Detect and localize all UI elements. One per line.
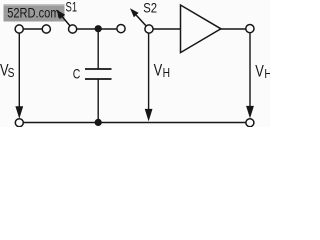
switch S2 blade with arrow <box>130 8 146 26</box>
wire: amplifier output to output terminal <box>221 28 246 30</box>
wire: capacitor bottom lead <box>97 79 99 123</box>
svg-text:S: S <box>8 66 15 80</box>
svg-text:S1: S1 <box>66 0 78 15</box>
capacitor C top plate <box>85 68 112 70</box>
node: output terminal top right <box>246 25 254 33</box>
wire: VH voltage arrow line (middle) <box>148 33 150 110</box>
wire: S2 pole to amplifier input <box>153 28 180 30</box>
svg-text:S2: S2 <box>143 0 157 16</box>
wire: top rail, terminal to S1 left contact <box>23 28 42 30</box>
svg-text:52RD.com: 52RD.com <box>7 6 59 21</box>
node: bottom left terminal <box>15 119 23 127</box>
arrowhead VS down <box>15 106 23 119</box>
svg-text:V: V <box>255 63 264 81</box>
wire: bottom rail <box>24 122 246 124</box>
wire: capacitor top lead <box>97 29 99 69</box>
switch S1 blade with arrow <box>56 10 70 26</box>
svg-text:H: H <box>264 67 270 81</box>
watermark 52RD.com <box>4 4 65 22</box>
svg-text:C: C <box>73 66 81 82</box>
svg-text:V: V <box>154 62 163 80</box>
svg-text:H: H <box>163 66 170 80</box>
node: input terminal top left <box>15 25 23 33</box>
node: S2 pole contact <box>145 25 153 33</box>
node: S1 pole contact <box>69 25 77 33</box>
node: S2 left contact <box>117 25 125 33</box>
wire: VS voltage arrow line (left) <box>18 33 20 108</box>
wire: S1 right contact to S2 left contact (through junction) <box>77 28 117 30</box>
junction: capacitor to top rail <box>95 25 102 32</box>
op-amp U1 buffer triangle <box>181 5 221 53</box>
node: bottom right terminal <box>246 119 254 127</box>
arrowhead VH right down <box>246 106 254 119</box>
node: S1 left contact <box>42 25 50 33</box>
capacitor C bottom plate <box>85 78 112 80</box>
arrowhead VH middle down <box>145 109 153 122</box>
junction: capacitor to bottom rail <box>95 119 102 126</box>
wire: VH voltage arrow line (right) <box>249 33 251 108</box>
